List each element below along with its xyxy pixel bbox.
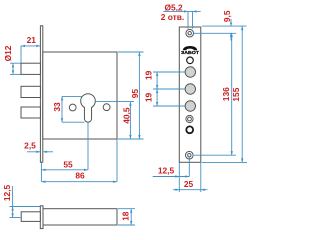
svg-text:12,5: 12,5 <box>2 185 12 202</box>
bottom view: faceplate section <box>40 206 43 229</box>
dim Ø12 (bolt diameter) <box>3 45 21 74</box>
dim 12,5 (plate edge to bolt axis, bottom view) <box>2 185 40 218</box>
svg-text:ЗАБОТ: ЗАБОТ <box>181 50 199 55</box>
svg-text:18: 18 <box>121 211 131 221</box>
svg-text:19: 19 <box>143 70 153 80</box>
bottom view: bolt tip <box>21 212 40 222</box>
dim 25 (plate width) <box>173 162 208 192</box>
euro cylinder keyhole <box>81 94 96 122</box>
cylinder screw hole right <box>103 104 110 111</box>
svg-text:2 отв.: 2 отв. <box>161 12 184 22</box>
bolt 1 <box>21 63 40 74</box>
dim 136 (hole to hole) <box>194 33 236 155</box>
concentric hole <box>186 115 193 122</box>
dim 40,5 (cylinder axis to body bottom) <box>95 102 134 139</box>
faceplate right view (plan) <box>179 27 201 162</box>
bolt hole 2 <box>185 84 195 94</box>
svg-text:136: 136 <box>221 87 231 101</box>
svg-text:95: 95 <box>130 89 140 99</box>
svg-text:40,5: 40,5 <box>121 107 131 124</box>
bolt hole 3 <box>185 101 195 111</box>
small hole below logo <box>187 57 194 64</box>
dim 55 (backset) <box>42 122 89 171</box>
dim 95 (body height) <box>118 52 144 139</box>
svg-text:55: 55 <box>63 160 73 170</box>
dim 21 (bolt length) <box>21 35 40 63</box>
dim 33 (cylinder height) <box>52 96 85 122</box>
svg-text:155: 155 <box>231 87 241 101</box>
bottom view: lock body bar <box>43 209 117 225</box>
svg-text:2,5: 2,5 <box>24 141 36 151</box>
svg-text:9,5: 9,5 <box>222 10 232 22</box>
label Ø5,2 2 holes <box>161 3 201 29</box>
svg-text:25: 25 <box>184 179 194 189</box>
bottom mounting hole <box>186 151 194 159</box>
bolt 3 <box>21 107 40 118</box>
dim 86 (body depth) <box>41 140 117 183</box>
dim 9,5 (plate top to hole center) <box>194 10 247 40</box>
lock body front view <box>43 52 117 139</box>
dim 155 (plate length) <box>202 26 247 162</box>
bold ring hole <box>186 126 193 133</box>
svg-text:12,5: 12,5 <box>158 166 175 176</box>
brand logo <box>181 46 199 55</box>
svg-text:Ø12: Ø12 <box>3 45 13 61</box>
svg-text:19: 19 <box>143 93 153 103</box>
svg-text:21: 21 <box>27 35 37 45</box>
bolt hole 1 <box>185 67 195 77</box>
cylinder screw hole left <box>69 104 76 111</box>
faceplate front view (vertical strip) <box>40 26 42 162</box>
svg-text:33: 33 <box>52 102 62 112</box>
svg-text:86: 86 <box>75 170 85 180</box>
dim 2,5 (faceplate thickness) <box>24 141 53 154</box>
dim 12,5 (plate edge to hole axis) <box>153 157 190 178</box>
dim 18 (body thickness) <box>118 209 135 225</box>
bolt 2 <box>21 86 40 97</box>
top mounting hole <box>186 29 194 37</box>
dim 19 x2 (bolt hole spacing) <box>143 70 185 106</box>
